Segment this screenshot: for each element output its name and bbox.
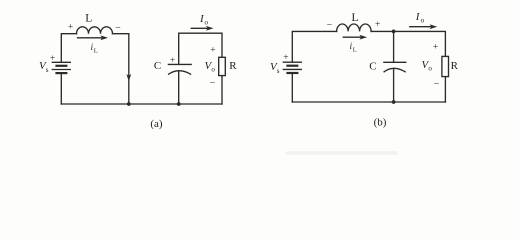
svg-text:(a): (a) <box>150 118 163 130</box>
inductor L (a) <box>77 27 113 34</box>
svg-text:+: + <box>375 20 380 30</box>
svg-text:+: + <box>68 23 73 33</box>
svg-text:o: o <box>421 17 425 25</box>
wire: capacitor (a) lower lead <box>178 71 180 104</box>
capacitor C (b) <box>384 62 406 72</box>
wire: circuit (b) bottom rail <box>292 101 445 103</box>
current arrow iL (a) <box>78 35 109 40</box>
svg-text:C: C <box>154 60 161 72</box>
svg-text:o: o <box>205 18 209 26</box>
svg-text:−: − <box>327 19 333 30</box>
inductor L (b) <box>337 24 372 31</box>
wire: circuit (a) top segment after inductor <box>113 33 129 35</box>
svg-text:(b): (b) <box>374 117 387 129</box>
wire: circuit (a) output loop top <box>179 33 222 64</box>
svg-text:s: s <box>46 66 49 74</box>
node: junction of capacitor with top rail (b) <box>392 30 396 34</box>
svg-text:+: + <box>210 46 215 56</box>
svg-text:R: R <box>451 60 459 72</box>
wire: circuit (b) left branch upper segment <box>292 31 336 62</box>
wire: circuit (a) middle vertical branch <box>128 34 130 104</box>
voltage source Vs (b) <box>283 62 301 73</box>
wire: circuit (b) left branch lower segment <box>291 73 293 102</box>
voltage source Vs (a) <box>52 62 70 73</box>
node: junction of capacitor with bottom rail (b) <box>392 100 396 104</box>
svg-text:−: − <box>210 77 216 88</box>
current arrow Io (b) <box>410 24 437 29</box>
svg-text:L: L <box>85 13 92 25</box>
current arrow Io (a) <box>191 26 213 31</box>
svg-text:R: R <box>229 60 237 72</box>
svg-text:+: + <box>283 53 288 63</box>
svg-text:−: − <box>434 79 440 90</box>
svg-text:+: + <box>50 54 55 64</box>
svg-text:L: L <box>94 48 98 55</box>
svg-text:+: + <box>433 42 438 52</box>
wire: capacitor (b) upper lead <box>393 31 395 62</box>
wire: capacitor (b) lower lead <box>393 69 395 103</box>
faint print bleed-through smudge at bottom <box>286 151 398 155</box>
wire: circuit (a) bottom rail <box>61 103 222 105</box>
node: junction of capacitor branch with bottom rail (a) <box>177 102 181 106</box>
wire: circuit (a) left branch upper segment <box>61 34 76 63</box>
wire: resistor (a) lower lead <box>221 76 223 104</box>
svg-text:L: L <box>351 12 358 24</box>
wire: resistor (b) lower lead <box>444 77 446 102</box>
svg-text:L: L <box>353 47 357 54</box>
wire: circuit (b) top rail after inductor <box>371 31 445 56</box>
node: junction of middle branch with bottom rail (a) <box>127 102 131 106</box>
resistor R (a) <box>219 57 226 75</box>
capacitor C (a) <box>168 64 191 74</box>
resistor R (b) <box>442 56 449 76</box>
wire: circuit (a) left branch lower segment <box>60 73 62 104</box>
svg-text:+: + <box>170 55 175 65</box>
svg-text:o: o <box>211 65 215 73</box>
svg-text:−: − <box>115 23 121 34</box>
svg-text:o: o <box>428 65 432 73</box>
current arrow: downward in middle branch (a) <box>126 74 131 82</box>
svg-text:C: C <box>369 61 376 73</box>
current arrow iL (b) <box>343 35 367 40</box>
svg-text:s: s <box>277 67 280 75</box>
